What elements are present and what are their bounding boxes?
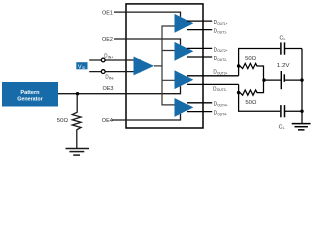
pin label DOUT3+ [213,69,227,75]
svg-text:OUT1-: OUT1- [217,30,227,34]
wire OE2 to buffer 2 enable [114,39,181,45]
wire OE1 to buffer 1 enable [114,12,181,17]
wire input buffer output to bus [154,65,163,67]
wire DIN- input [89,71,141,73]
wire DOUT4+ [187,102,212,104]
svg-text:OUT4+: OUT4+ [217,104,227,108]
junction dot 1.2V node to rail [300,78,303,81]
svg-text:1.2V: 1.2V [277,63,290,69]
svg-text:Pattern: Pattern [20,90,40,96]
junction dot center tap node [262,78,265,81]
pin label DOUT3- [213,86,226,92]
value label 50 ohm (R1) [245,56,256,62]
IC box U1 [126,4,203,128]
terminal DIN+ [101,58,105,62]
pin label DOUT1- [214,29,227,35]
svg-text:OUT3+: OUT3+ [217,71,227,75]
svg-text:OE2: OE2 [102,37,113,43]
pin label DIN+ [104,54,113,60]
wire OE4 to buffer 4 enable [112,114,181,120]
svg-text:IN+: IN+ [108,55,114,59]
pin label OE2 [102,37,113,43]
wire OE3 from pattern generator to buffer 3 enable [58,86,181,94]
svg-text:OUT2-: OUT2- [217,58,227,62]
wire right rail [301,49,303,124]
svg-text:OUT3-: OUT3- [217,88,227,92]
pin label DOUT2- [214,56,227,62]
wire termination upper branch from DOUT3+ [239,49,281,76]
wire internal distribution bus [162,26,175,105]
wire DOUT4- [187,111,212,113]
svg-text:OUT1+: OUT1+ [217,22,227,26]
pin label DOUT1+ [214,20,228,26]
pin label OE1 [102,11,113,17]
wire DOUT2- [187,56,212,58]
junction dot pattern generator / OE3 / R5 [76,92,79,95]
value label 50 ohm (R5) [57,118,68,124]
wire DOUT3+ to termination [187,75,239,77]
value label 1.2V [277,63,290,69]
battery V1 1.2V bias source [281,71,302,89]
junction dot bottom rail to rail [300,110,303,113]
svg-text:50Ω: 50Ω [245,100,256,106]
pin label DOUT4- [214,111,227,117]
svg-text:50Ω: 50Ω [57,118,68,124]
wire DIN+ input [89,59,141,61]
svg-text:ID: ID [82,66,86,70]
ground (right) [292,124,311,130]
svg-text:L: L [284,37,286,41]
value label CL bottom [279,124,285,130]
pattern generator source [2,82,58,107]
svg-text:50Ω: 50Ω [245,56,256,62]
terminal DIN- [101,70,105,74]
output buffer 2 [175,42,194,61]
svg-text:OE4: OE4 [102,118,113,124]
pin label OE4 [102,118,113,124]
wire termination lower branch from DOUT3- [239,84,281,111]
junction dot R2 tap [237,91,240,94]
value label CL top [280,35,286,41]
pin label DOUT4+ [214,102,228,108]
input buffer U1A [134,56,155,75]
svg-text:OE3: OE3 [103,86,114,92]
svg-text:Generator: Generator [17,97,43,103]
junction dot R1 tap [237,64,240,67]
output buffer 3 [175,70,194,89]
pin label DIN- [105,75,114,81]
wire center tap to bypass capacitor [264,79,281,81]
pin label OE3 [103,86,114,92]
output buffer 1 [175,14,194,33]
wire DOUT1+ [187,20,212,22]
pin label DOUT2+ [214,47,228,53]
svg-text:L: L [283,126,285,130]
wire DOUT3- to termination [187,83,239,85]
svg-text:OUT2+: OUT2+ [217,49,227,53]
ground (left) [66,149,90,156]
resistor R2 50 ohm [239,82,264,96]
resistor R1 50 ohm [239,63,264,78]
wire DOUT2+ [187,47,212,49]
svg-text:IN-: IN- [109,77,114,81]
value label 50 ohm (R2) [245,100,256,106]
capacitor CL bottom [281,105,302,117]
capacitor CL top [281,42,302,54]
output buffer 4 [175,98,194,117]
svg-text:OE1: OE1 [102,11,113,17]
source label VID [76,62,87,70]
resistor R5 50 ohm source termination [72,94,81,149]
wire DOUT1- [187,29,212,31]
svg-text:OUT4-: OUT4- [217,112,227,116]
